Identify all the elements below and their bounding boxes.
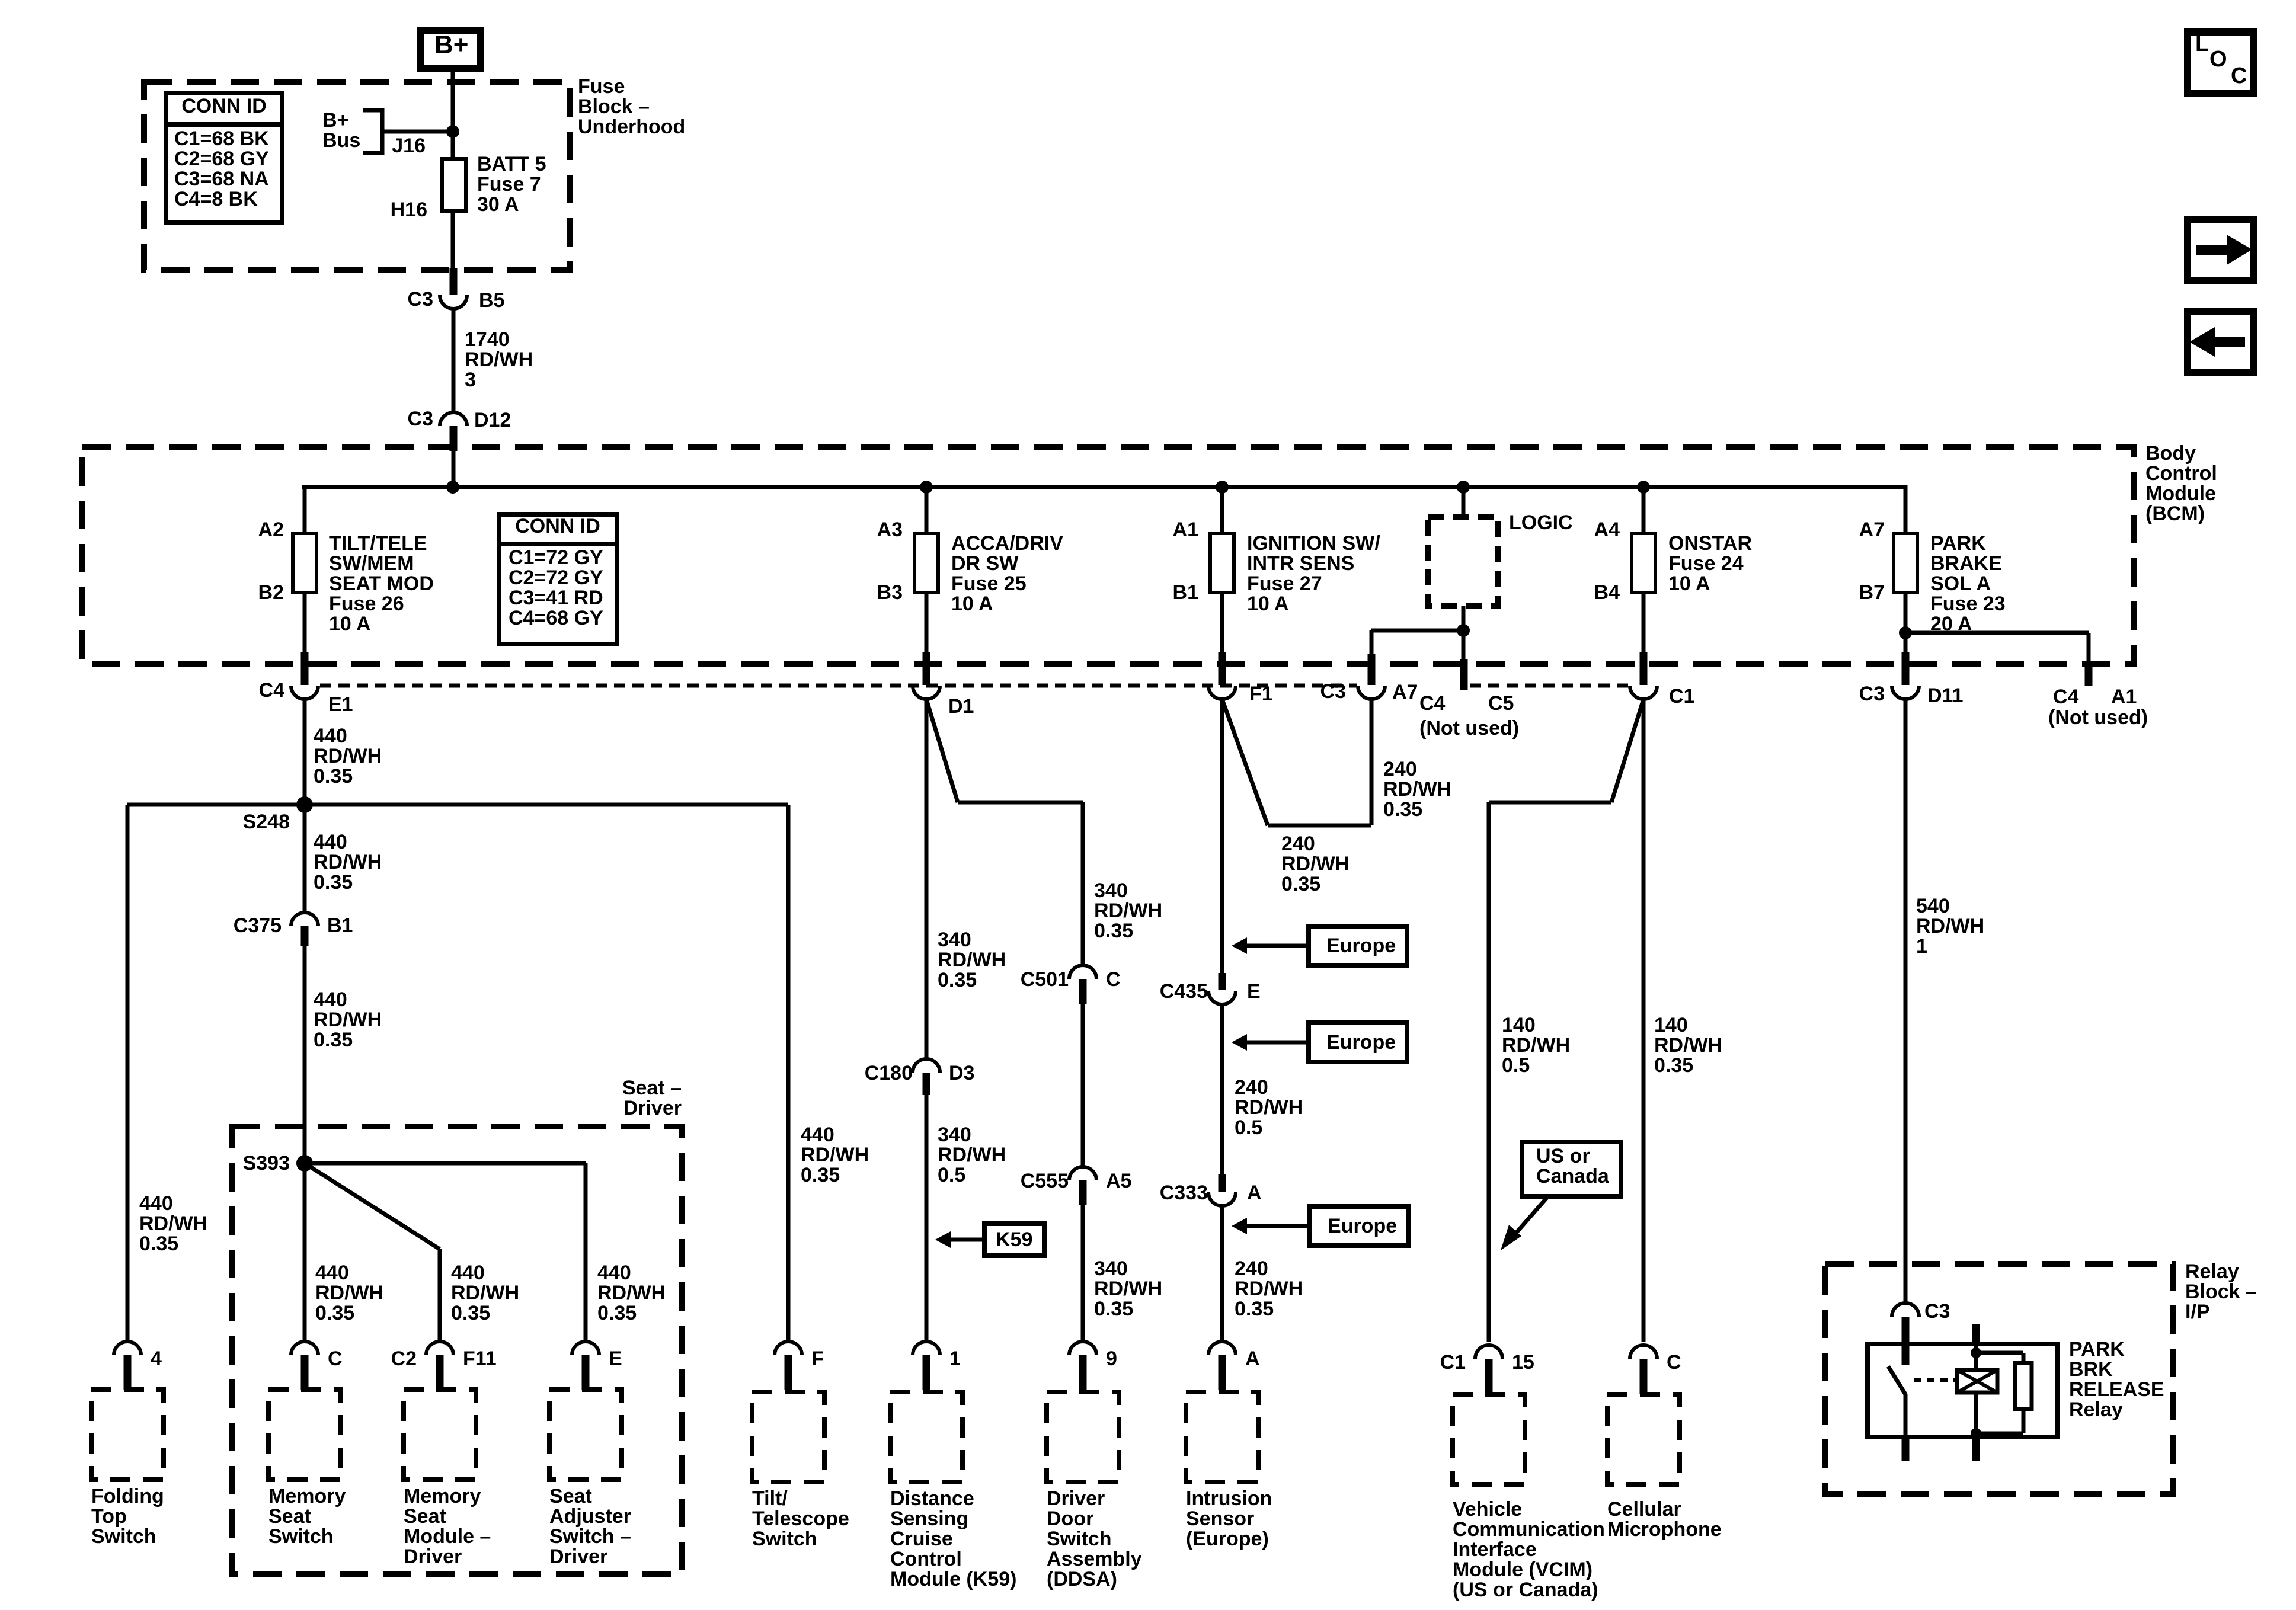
fuse 24 pin labels bbox=[1594, 518, 1620, 604]
svg-text:0.35: 0.35 bbox=[315, 1302, 354, 1324]
fuse block underhood dashed border bbox=[144, 82, 570, 270]
wire bus to fuse 27 bbox=[1220, 487, 1224, 533]
junction bus fuse 25 bbox=[920, 481, 933, 494]
wire label 440 tilt bbox=[801, 1124, 869, 1186]
connector C3-B5 bbox=[408, 268, 505, 312]
svg-text:A2: A2 bbox=[258, 518, 284, 541]
svg-text:240: 240 bbox=[1383, 758, 1417, 780]
wire fuse to C3-B5 bbox=[451, 211, 455, 271]
connector C3-D12 bbox=[408, 408, 511, 451]
fuse 27 pin labels bbox=[1173, 518, 1198, 604]
svg-text:RD/WH: RD/WH bbox=[938, 1144, 1006, 1166]
svg-text:Seat: Seat bbox=[404, 1505, 446, 1528]
fuse 27 IGNITION bbox=[1210, 533, 1234, 593]
svg-text:Control: Control bbox=[2145, 462, 2217, 485]
junction relay coil bottom bbox=[1971, 1428, 1981, 1439]
svg-text:1: 1 bbox=[949, 1347, 961, 1370]
BCM label bbox=[2145, 442, 2217, 525]
svg-text:Driver: Driver bbox=[404, 1545, 462, 1568]
pin A intrusion sensor bbox=[1208, 1342, 1260, 1390]
svg-text:C4: C4 bbox=[259, 679, 285, 702]
wire S393 horizontal to E bbox=[305, 1163, 586, 1342]
svg-text:Assembly: Assembly bbox=[1047, 1548, 1142, 1570]
svg-text:INTR SENS: INTR SENS bbox=[1247, 552, 1354, 575]
svg-text:9: 9 bbox=[1106, 1347, 1117, 1370]
svg-text:RD/WH: RD/WH bbox=[1502, 1034, 1570, 1057]
svg-text:440: 440 bbox=[314, 988, 347, 1011]
svg-text:10 A: 10 A bbox=[1247, 593, 1289, 615]
page arrow right box bbox=[2188, 219, 2254, 280]
svg-text:240: 240 bbox=[1235, 1076, 1268, 1099]
relay coil feed wire bbox=[1974, 1344, 1978, 1370]
splice S248 bbox=[243, 796, 313, 833]
pin C1-15 VCIM bbox=[1440, 1345, 1534, 1394]
pin 4 folding top switch bbox=[114, 1342, 162, 1390]
svg-text:E: E bbox=[609, 1347, 622, 1370]
svg-text:B+: B+ bbox=[434, 30, 468, 59]
labels C4 A1 not used bbox=[2048, 686, 2148, 729]
wire LOGIC to junction bbox=[1462, 606, 1466, 630]
wire label 440 C375 bbox=[314, 988, 382, 1051]
svg-text:B5: B5 bbox=[479, 289, 504, 312]
svg-text:H16: H16 bbox=[391, 199, 427, 221]
svg-text:(Not used): (Not used) bbox=[1419, 717, 1519, 740]
svg-text:SEAT MOD: SEAT MOD bbox=[329, 572, 434, 595]
svg-text:C2=68 GY: C2=68 GY bbox=[174, 148, 269, 170]
svg-text:0.35: 0.35 bbox=[1094, 1298, 1133, 1320]
junction bus LOGIC bbox=[1457, 481, 1470, 494]
svg-text:Body: Body bbox=[2145, 442, 2196, 465]
relay switch blade bbox=[1888, 1366, 1905, 1394]
driver door box bbox=[1047, 1392, 1119, 1482]
svg-text:Fuse: Fuse bbox=[578, 75, 625, 98]
fuse 25 pin labels bbox=[877, 518, 903, 604]
svg-text:BRK: BRK bbox=[2069, 1358, 2113, 1381]
svg-text:Underhood: Underhood bbox=[578, 116, 685, 138]
junction LOGIC out bbox=[1457, 624, 1470, 637]
relay coil pin top stub bbox=[1972, 1324, 1980, 1344]
wire bus to fuse 26 bbox=[303, 485, 307, 533]
wire S248 folding branch bbox=[126, 805, 130, 1342]
wire label 340 K59 bbox=[938, 1124, 1006, 1186]
svg-text:0.35: 0.35 bbox=[451, 1302, 490, 1324]
wire LOGIC junction to A7 branch bbox=[1371, 630, 1463, 657]
wire label 240 A7 bbox=[1383, 758, 1451, 821]
svg-text:RD/WH: RD/WH bbox=[1094, 1278, 1162, 1300]
svg-text:Driver: Driver bbox=[549, 1545, 607, 1568]
wire label 140 mic bbox=[1654, 1014, 1722, 1077]
svg-text:0.35: 0.35 bbox=[1383, 798, 1422, 821]
fuse 27 label bbox=[1247, 532, 1380, 615]
labels C4 C5 not used bbox=[1419, 692, 1519, 740]
svg-text:D11: D11 bbox=[1927, 684, 1964, 707]
cellular microphone box bbox=[1607, 1394, 1680, 1484]
svg-text:Cellular: Cellular bbox=[1607, 1498, 1681, 1521]
svg-text:240: 240 bbox=[1235, 1257, 1268, 1280]
CONN ID table BCM bbox=[499, 514, 617, 644]
connector C555-A5 bbox=[1021, 1167, 1132, 1205]
svg-text:440: 440 bbox=[451, 1262, 485, 1284]
wire to resistor top bbox=[1976, 1353, 2023, 1363]
svg-text:Seat: Seat bbox=[549, 1485, 592, 1507]
wire D1 to C180 bbox=[925, 699, 929, 1060]
seat driver dashed border bbox=[232, 1126, 682, 1574]
svg-text:B1: B1 bbox=[327, 914, 353, 937]
svg-text:F1: F1 bbox=[1249, 683, 1273, 705]
svg-text:(Not used): (Not used) bbox=[2048, 706, 2148, 729]
svg-text:RD/WH: RD/WH bbox=[314, 1009, 382, 1031]
pin E seat adjuster bbox=[572, 1342, 622, 1390]
svg-text:340: 340 bbox=[1094, 1257, 1128, 1280]
svg-text:C3: C3 bbox=[1859, 683, 1885, 705]
svg-text:440: 440 bbox=[597, 1262, 631, 1284]
svg-text:B2: B2 bbox=[258, 581, 284, 604]
svg-text:Seat: Seat bbox=[268, 1505, 311, 1528]
svg-text:0.35: 0.35 bbox=[314, 871, 353, 894]
memory seat switch label bbox=[268, 1485, 346, 1548]
svg-text:S393: S393 bbox=[243, 1152, 290, 1174]
fuse BATT 5 Fuse 7 30A bbox=[442, 159, 466, 211]
svg-text:Switch: Switch bbox=[752, 1528, 817, 1550]
relay coil bottom wire bbox=[1974, 1393, 1978, 1433]
svg-text:Block –: Block – bbox=[2185, 1281, 2257, 1303]
seat driver label bbox=[622, 1077, 682, 1119]
relay switch bottom stub bbox=[1902, 1437, 1910, 1461]
svg-text:RD/WH: RD/WH bbox=[1235, 1096, 1303, 1119]
svg-text:Module (K59): Module (K59) bbox=[890, 1568, 1016, 1590]
svg-text:RD/WH: RD/WH bbox=[938, 949, 1006, 971]
svg-text:TILT/TELE: TILT/TELE bbox=[329, 532, 427, 555]
svg-text:Intrusion: Intrusion bbox=[1186, 1487, 1272, 1510]
svg-text:0.35: 0.35 bbox=[314, 1029, 353, 1051]
tilt telescope box bbox=[752, 1392, 824, 1482]
svg-text:RD/WH: RD/WH bbox=[139, 1212, 207, 1235]
svg-text:0.5: 0.5 bbox=[938, 1164, 965, 1186]
wire D1 diagonal to C501 bbox=[926, 699, 1083, 966]
relay resistor bbox=[2015, 1363, 2032, 1409]
svg-text:440: 440 bbox=[801, 1124, 834, 1146]
svg-text:A: A bbox=[1247, 1182, 1262, 1204]
VCIM label bbox=[1453, 1498, 1605, 1601]
svg-text:Module: Module bbox=[2145, 482, 2216, 505]
splice S393 bbox=[243, 1152, 313, 1174]
svg-text:(US or Canada): (US or Canada) bbox=[1453, 1579, 1598, 1601]
svg-text:E: E bbox=[1247, 980, 1261, 1003]
label J16 bbox=[392, 135, 426, 157]
svg-text:RD/WH: RD/WH bbox=[1235, 1278, 1303, 1300]
pin C memory seat switch bbox=[291, 1342, 343, 1390]
svg-text:140: 140 bbox=[1502, 1014, 1536, 1036]
svg-text:0.5: 0.5 bbox=[1235, 1116, 1262, 1139]
svg-text:RD/WH: RD/WH bbox=[315, 1282, 383, 1304]
wire E1 to S248 bbox=[303, 699, 307, 805]
svg-text:Fuse 23: Fuse 23 bbox=[1930, 593, 2006, 615]
relay coil bottom stub bbox=[1972, 1437, 1980, 1461]
svg-text:RD/WH: RD/WH bbox=[1094, 900, 1162, 922]
svg-text:Relay: Relay bbox=[2069, 1398, 2123, 1421]
fuse block label bbox=[578, 75, 685, 138]
wire S393 diagonal to F11 bbox=[305, 1163, 440, 1342]
svg-text:C435: C435 bbox=[1160, 980, 1208, 1003]
B+ Bus label bbox=[322, 109, 360, 152]
svg-text:340: 340 bbox=[938, 1124, 971, 1146]
svg-text:RD/WH: RD/WH bbox=[597, 1282, 666, 1304]
junction bus main feed bbox=[446, 481, 459, 494]
svg-text:Driver: Driver bbox=[623, 1097, 682, 1119]
svg-text:Communication: Communication bbox=[1453, 1518, 1605, 1541]
svg-text:C555: C555 bbox=[1021, 1170, 1069, 1192]
svg-text:A1: A1 bbox=[2111, 686, 2137, 708]
pin C2-F11 memory seat module bbox=[391, 1342, 497, 1390]
svg-text:C3: C3 bbox=[1320, 680, 1346, 703]
svg-text:Memory: Memory bbox=[404, 1485, 481, 1507]
europe arrow 2 bbox=[1232, 1023, 1407, 1062]
svg-text:Switch: Switch bbox=[268, 1525, 334, 1548]
svg-text:Switch –: Switch – bbox=[549, 1525, 631, 1548]
wire fuse 25 to D1 bbox=[925, 593, 929, 652]
wire label 140 VCIM bbox=[1502, 1014, 1570, 1077]
svg-text:Sensor: Sensor bbox=[1186, 1507, 1254, 1530]
svg-text:RD/WH: RD/WH bbox=[801, 1144, 869, 1166]
relay block dashed border bbox=[1825, 1264, 2173, 1494]
wire F1 to C435 bbox=[1220, 699, 1224, 973]
connector C3-D11 bbox=[1859, 652, 1964, 707]
wire label 540 bbox=[1916, 895, 1984, 958]
connector D1 bbox=[913, 652, 974, 718]
svg-text:C3=68 NA: C3=68 NA bbox=[174, 168, 269, 190]
svg-text:15: 15 bbox=[1512, 1351, 1534, 1374]
svg-text:E1: E1 bbox=[328, 693, 353, 716]
fuse 23 PARK BRAKE bbox=[1894, 533, 1917, 593]
wire to C4-A1 not used bbox=[1905, 633, 2089, 664]
label H16 bbox=[391, 199, 427, 221]
svg-text:Fuse 26: Fuse 26 bbox=[329, 593, 404, 615]
wire label 240 F1 bbox=[1281, 833, 1350, 895]
svg-text:0.35: 0.35 bbox=[139, 1233, 178, 1255]
svg-text:SW/MEM: SW/MEM bbox=[329, 552, 414, 575]
fuse 25 ACCA/DRIV bbox=[914, 533, 938, 593]
wire bus to LOGIC bbox=[1462, 487, 1466, 517]
intrusion sensor label bbox=[1186, 1487, 1272, 1550]
svg-text:Vehicle: Vehicle bbox=[1453, 1498, 1522, 1521]
junction relay coil top bbox=[1971, 1347, 1981, 1358]
fuse 26 label bbox=[329, 532, 434, 635]
svg-text:A5: A5 bbox=[1106, 1170, 1131, 1192]
svg-text:440: 440 bbox=[139, 1192, 173, 1215]
europe arrow 3 bbox=[1232, 1206, 1408, 1246]
connector C3 relay block bbox=[1892, 1300, 1950, 1344]
relay switch to bottom bbox=[1904, 1394, 1908, 1437]
wire D12 into BCM bbox=[452, 451, 456, 487]
svg-text:F: F bbox=[811, 1347, 824, 1370]
wire bus to fuse 25 bbox=[925, 487, 929, 533]
svg-text:DR SW: DR SW bbox=[951, 552, 1019, 575]
wire label 340 C501 bbox=[1094, 879, 1162, 942]
svg-text:IGNITION SW/: IGNITION SW/ bbox=[1247, 532, 1380, 555]
LOC reference box bbox=[2188, 31, 2253, 94]
svg-text:BRAKE: BRAKE bbox=[1930, 552, 2002, 575]
svg-text:RD/WH: RD/WH bbox=[1383, 778, 1451, 801]
svg-text:540: 540 bbox=[1916, 895, 1950, 917]
BCM connector row dotted line bbox=[320, 684, 1629, 688]
svg-text:F11: F11 bbox=[463, 1347, 497, 1370]
svg-text:Telescope: Telescope bbox=[752, 1507, 849, 1530]
wire label 340 D1 bbox=[938, 929, 1006, 991]
svg-text:Bus: Bus bbox=[322, 129, 360, 152]
svg-text:A4: A4 bbox=[1594, 518, 1620, 541]
svg-text:0.35: 0.35 bbox=[1094, 920, 1133, 942]
fuse 25 label bbox=[951, 532, 1063, 615]
LOGIC label bbox=[1509, 511, 1573, 534]
svg-text:A7: A7 bbox=[1392, 681, 1418, 703]
LOGIC dashed box bbox=[1428, 517, 1498, 606]
connector C333-A bbox=[1160, 1174, 1262, 1206]
svg-text:1: 1 bbox=[1916, 935, 1927, 958]
svg-text:C2: C2 bbox=[391, 1347, 417, 1370]
svg-text:Sensing: Sensing bbox=[890, 1507, 968, 1530]
pin 9 driver door bbox=[1069, 1342, 1117, 1390]
svg-text:D1: D1 bbox=[948, 695, 974, 718]
seat adjuster label bbox=[549, 1485, 631, 1568]
svg-text:Cruise: Cruise bbox=[890, 1528, 953, 1550]
svg-text:Block –: Block – bbox=[578, 95, 650, 118]
wire label 440 E bbox=[597, 1262, 666, 1324]
svg-text:B1: B1 bbox=[1173, 581, 1198, 604]
svg-text:10 A: 10 A bbox=[951, 593, 993, 615]
wire fuse 26 to C4-E1 bbox=[303, 593, 307, 652]
page arrow left box bbox=[2188, 312, 2253, 373]
europe arrow 1 bbox=[1232, 926, 1407, 965]
intrusion sensor box bbox=[1186, 1392, 1258, 1482]
memory seat module box bbox=[404, 1390, 476, 1480]
junction bus fuse 24 bbox=[1637, 481, 1650, 494]
wire S248 to C375 bbox=[303, 805, 307, 913]
wire label 240 C333 bbox=[1235, 1257, 1303, 1320]
svg-text:C4: C4 bbox=[2053, 686, 2079, 708]
svg-text:A1: A1 bbox=[1173, 518, 1198, 541]
svg-text:B7: B7 bbox=[1859, 581, 1885, 604]
wire S393 to memory seat switch bbox=[303, 1163, 307, 1342]
tilt telescope label bbox=[752, 1487, 849, 1550]
svg-text:1740: 1740 bbox=[465, 328, 510, 351]
wire fuse 24 to C1 bbox=[1642, 593, 1646, 652]
wire C375 to S393 bbox=[303, 946, 307, 1163]
connector C375-B1 bbox=[234, 913, 353, 946]
svg-text:3: 3 bbox=[465, 369, 476, 391]
connector C501-C bbox=[1021, 965, 1121, 1004]
wire LOGIC junction down to C5 bbox=[1462, 630, 1466, 660]
svg-text:Tilt/: Tilt/ bbox=[752, 1487, 788, 1510]
svg-text:Driver: Driver bbox=[1047, 1487, 1105, 1510]
B+ Bus bracket bbox=[363, 108, 453, 155]
svg-text:440: 440 bbox=[315, 1262, 349, 1284]
svg-text:O: O bbox=[2209, 47, 2227, 72]
wire label 1740 RD/WH 3 bbox=[465, 328, 533, 391]
resistor bottom wire bbox=[1976, 1409, 2023, 1433]
svg-text:US or: US or bbox=[1536, 1145, 1590, 1167]
svg-text:ONSTAR: ONSTAR bbox=[1668, 532, 1752, 555]
svg-text:Fuse 27: Fuse 27 bbox=[1247, 572, 1322, 595]
svg-text:BATT 5: BATT 5 bbox=[477, 153, 546, 175]
svg-text:0.35: 0.35 bbox=[1281, 873, 1320, 895]
svg-text:(DDSA): (DDSA) bbox=[1047, 1568, 1117, 1590]
svg-text:C: C bbox=[328, 1347, 343, 1370]
svg-text:C1=72 GY: C1=72 GY bbox=[509, 546, 603, 569]
svg-text:C1: C1 bbox=[1669, 685, 1694, 708]
svg-text:Switch: Switch bbox=[91, 1525, 156, 1548]
svg-text:C5: C5 bbox=[1488, 692, 1514, 715]
svg-text:440: 440 bbox=[314, 831, 347, 853]
svg-text:0.35: 0.35 bbox=[597, 1302, 637, 1324]
wire F1 diagonal to A7 bbox=[1222, 699, 1371, 825]
pin 1 distance sensing bbox=[913, 1342, 961, 1390]
relay switch pin top stub bbox=[1902, 1344, 1910, 1365]
svg-text:0.35: 0.35 bbox=[801, 1164, 840, 1186]
fuse 23 label bbox=[1930, 532, 2006, 635]
wire C1 diagonal to VCIM bbox=[1489, 699, 1643, 1342]
svg-text:C4=68 GY: C4=68 GY bbox=[509, 607, 603, 629]
svg-text:C2=72 GY: C2=72 GY bbox=[509, 566, 603, 589]
wire label 440 memC bbox=[315, 1262, 383, 1324]
svg-text:C180: C180 bbox=[865, 1062, 913, 1084]
svg-text:C375: C375 bbox=[234, 914, 282, 937]
connector C180-D3 bbox=[865, 1059, 975, 1095]
svg-text:S248: S248 bbox=[243, 811, 290, 833]
svg-text:C1: C1 bbox=[1440, 1351, 1466, 1374]
wire bus to fuse 23 bbox=[1904, 485, 1908, 533]
connector C4-E1 bbox=[259, 652, 353, 716]
svg-text:340: 340 bbox=[1094, 879, 1128, 902]
svg-text:RD/WH: RD/WH bbox=[465, 348, 533, 371]
distance sensing box bbox=[890, 1392, 962, 1482]
svg-text:Folding: Folding bbox=[91, 1485, 164, 1507]
svg-text:0.35: 0.35 bbox=[1235, 1298, 1274, 1320]
svg-text:Module (VCIM): Module (VCIM) bbox=[1453, 1558, 1593, 1581]
svg-text:Fuse 25: Fuse 25 bbox=[951, 572, 1027, 595]
svg-text:Switch: Switch bbox=[1047, 1528, 1112, 1550]
svg-text:Memory: Memory bbox=[268, 1485, 346, 1507]
svg-text:10 A: 10 A bbox=[329, 613, 371, 635]
driver door label bbox=[1047, 1487, 1142, 1590]
svg-text:C3=41 RD: C3=41 RD bbox=[509, 587, 603, 609]
svg-text:Module –: Module – bbox=[404, 1525, 491, 1548]
svg-text:RD/WH: RD/WH bbox=[1281, 853, 1350, 875]
CONN ID table fuse block bbox=[166, 93, 282, 223]
wire S248 horizontal bbox=[127, 803, 788, 807]
wire label 440 folding bbox=[139, 1192, 207, 1255]
svg-text:0.35: 0.35 bbox=[938, 969, 977, 991]
svg-text:30 A: 30 A bbox=[477, 193, 519, 216]
relay label bbox=[2069, 1338, 2164, 1421]
svg-text:Canada: Canada bbox=[1536, 1165, 1610, 1188]
svg-text:RD/WH: RD/WH bbox=[451, 1282, 519, 1304]
connector F1 bbox=[1208, 652, 1273, 705]
svg-text:J16: J16 bbox=[392, 135, 426, 157]
wire C555 to pin 9 bbox=[1081, 1205, 1085, 1342]
svg-text:Adjuster: Adjuster bbox=[549, 1505, 631, 1528]
memory seat switch box bbox=[268, 1390, 341, 1480]
svg-text:CONN ID: CONN ID bbox=[515, 515, 600, 537]
svg-text:A3: A3 bbox=[877, 518, 903, 541]
wire bus to fuse 24 bbox=[1642, 487, 1646, 533]
svg-text:PARK: PARK bbox=[1930, 532, 1986, 555]
svg-text:L: L bbox=[2195, 31, 2209, 56]
wire label 240 C435 bbox=[1235, 1076, 1303, 1139]
pin F tilt telescope bbox=[775, 1342, 824, 1390]
svg-text:Control: Control bbox=[890, 1548, 962, 1570]
svg-text:C4=8 BK: C4=8 BK bbox=[174, 188, 258, 210]
svg-text:140: 140 bbox=[1654, 1014, 1688, 1036]
